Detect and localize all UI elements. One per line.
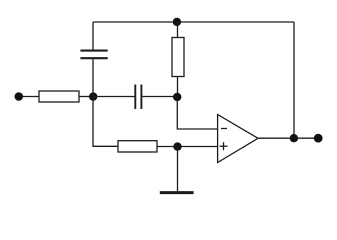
wire top rail	[93, 21, 294, 23]
wire feedback right rail	[293, 22, 295, 138]
node B junction	[173, 18, 181, 26]
output terminal OUT	[314, 134, 323, 143]
ground	[160, 191, 194, 194]
wire input to R1	[21, 96, 39, 98]
resistor R1	[39, 91, 79, 102]
op-amp U1 plus label	[220, 142, 228, 150]
node A junction	[89, 92, 97, 100]
wire node A to C1 bottom	[92, 59, 94, 96]
node C junction	[173, 93, 181, 101]
wire C2 right plate to node C	[142, 96, 177, 98]
wire node B to R2 top	[177, 22, 179, 38]
wire node D to ground	[177, 147, 179, 192]
op-amp U1	[218, 115, 258, 163]
wire R1 to node A	[79, 96, 93, 98]
wire node E to output terminal	[294, 137, 316, 139]
op-amp U1 minus label	[221, 128, 227, 130]
node D junction	[173, 142, 181, 150]
wire R3 to node D and non-inverting input	[157, 146, 218, 148]
capacitor C2	[135, 85, 141, 110]
node E junction	[290, 134, 298, 142]
input terminal IN	[14, 92, 23, 101]
wire node C to inverting input	[177, 97, 217, 129]
wire node A down to R3	[93, 97, 118, 147]
wire node A to C2 left plate	[93, 96, 135, 98]
wire op-amp output to node E	[258, 137, 294, 139]
wire R2 bottom to node C	[177, 77, 179, 98]
wire C1 top to top rail	[92, 22, 94, 50]
resistor R3	[118, 141, 157, 152]
resistor R2	[172, 38, 184, 77]
capacitor C1	[80, 51, 107, 59]
